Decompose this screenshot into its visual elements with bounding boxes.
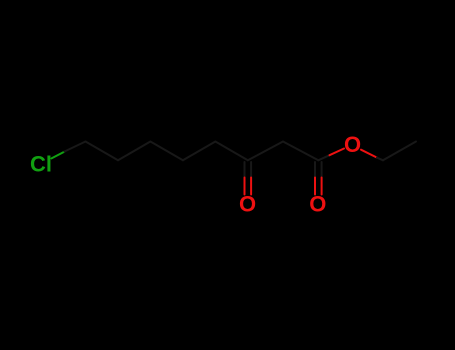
bond CH2-CH3 bbox=[383, 142, 416, 161]
bond C3-C2 bbox=[248, 142, 283, 161]
bond C7-C6 bbox=[118, 142, 150, 161]
svg-text:O: O bbox=[239, 192, 256, 217]
bond C4-C3 bbox=[215, 142, 247, 161]
ester C1=O double bond carbon halves bbox=[315, 162, 322, 178]
svg-text:Cl: Cl bbox=[30, 152, 52, 177]
bond C6-C5 bbox=[150, 142, 183, 161]
ketone C3=O double bond carbon halves bbox=[245, 162, 252, 178]
svg-text:O: O bbox=[309, 192, 326, 217]
bond C1-O(ester) oxygen half (red) bbox=[330, 149, 345, 156]
bond Cl-C8 green half bbox=[52, 152, 65, 159]
bond O(ester)-CH2 oxygen half (red) bbox=[361, 150, 377, 158]
ester C1=O double bond oxygen halves (red) bbox=[315, 178, 322, 195]
bond C2-C1 bbox=[283, 142, 318, 161]
bond C1-O(ester) carbon half bbox=[318, 155, 329, 160]
bond C8-C7 bbox=[86, 142, 119, 161]
ketone C3=O double bond oxygen halves (red) bbox=[245, 178, 252, 195]
svg-text:O: O bbox=[344, 132, 361, 157]
bond O(ester)-CH2 carbon half bbox=[377, 158, 383, 161]
bond Cl-C8 carbon half bbox=[65, 142, 86, 152]
bond C5-C4 bbox=[183, 142, 216, 161]
